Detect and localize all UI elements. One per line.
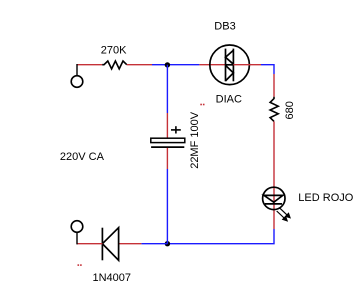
- pin dots red (diode): [78, 264, 80, 266]
- svg-text:680: 680: [284, 101, 296, 119]
- wire red out of diac: [233, 64, 261, 66]
- wire blue LED to bottom-right corner: [167, 229, 274, 244]
- terminal X2 (220V CA bottom): [71, 221, 83, 233]
- wire blue (junction A to diac): [167, 64, 199, 66]
- wire blue down to junction B: [166, 169, 168, 244]
- wire red diode to bottom terminal: [77, 243, 102, 245]
- wire blue to top-right corner: [261, 65, 274, 74]
- svg-text:DB3: DB3: [214, 20, 235, 32]
- wire red (resistor to blue): [127, 64, 152, 66]
- wire blue junction A down: [166, 65, 168, 113]
- wire red into diac: [199, 64, 225, 66]
- node B junction dot: [165, 241, 170, 246]
- wire stub top terminal black: [76, 64, 78, 76]
- svg-text:DIAC: DIAC: [216, 93, 242, 105]
- wire red below capacitor: [166, 148, 168, 169]
- wire top-left red (terminal to resistor): [77, 64, 102, 66]
- diac U1 DB3: [210, 45, 250, 85]
- wire red down to capacitor: [166, 113, 168, 138]
- resistor R2 680: [270, 97, 278, 122]
- wire blue junction B to diode: [141, 243, 167, 245]
- LED arrows: [277, 208, 290, 221]
- capacitor plus sign: [171, 126, 181, 133]
- pin dots red (diac): [200, 104, 202, 106]
- svg-text:LED ROJO: LED ROJO: [298, 192, 353, 204]
- LED D2 (LED ROJO): [263, 187, 285, 209]
- svg-text:270K: 270K: [101, 45, 127, 57]
- diode D1 1N4007: [102, 228, 118, 261]
- svg-text:220V CA: 220V CA: [60, 151, 105, 163]
- terminal X1 (220V CA top): [71, 76, 83, 88]
- svg-text:1N4007: 1N4007: [93, 272, 132, 284]
- node A junction dot: [165, 62, 170, 67]
- wire stub bottom terminal black: [76, 232, 78, 244]
- capacitor C1 (electrolytic): [151, 138, 185, 147]
- wire red to diode: [119, 243, 142, 245]
- svg-text:22MF 100V: 22MF 100V: [189, 111, 201, 169]
- wire red R2 to LED: [273, 121, 275, 229]
- wire blue (to junction A): [152, 64, 167, 66]
- resistor R1 270K: [102, 61, 127, 69]
- wire red down to R2: [273, 74, 275, 97]
